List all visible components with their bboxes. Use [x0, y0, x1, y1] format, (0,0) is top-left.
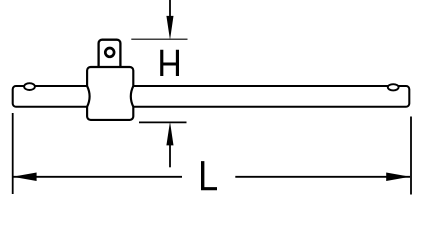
dimension H bottom arrowhead [166, 122, 173, 146]
dimension L left extension line [12, 113, 14, 194]
hanging hole right end [388, 84, 399, 90]
dimension L left arrowhead [13, 173, 37, 182]
dimension H bottom extension line [139, 121, 187, 123]
label L [201, 161, 217, 190]
dimension H top arrowhead [166, 16, 173, 40]
dimension L right extension line [410, 117, 412, 195]
sliding T-bar shaft [13, 86, 410, 107]
dimension H bottom arrow tail [169, 145, 171, 167]
sliding head body [87, 67, 133, 120]
dimension H top extension line [131, 38, 187, 40]
dimension L line right segment [235, 176, 410, 178]
dimension L line left segment [13, 176, 182, 178]
label H [160, 50, 179, 76]
dimension H top arrow tail [169, 0, 171, 18]
dimension L right arrowhead [386, 173, 410, 182]
detent ball circle [105, 48, 114, 57]
square drive tang [99, 40, 121, 68]
hanging hole left end [24, 83, 35, 90]
